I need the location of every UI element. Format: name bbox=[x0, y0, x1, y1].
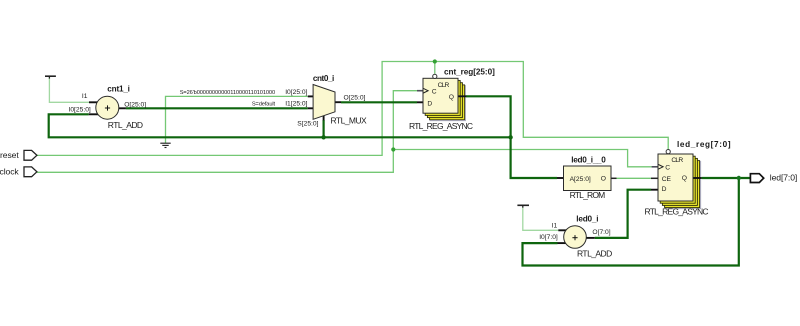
svg-text:I0[25:0]: I0[25:0] bbox=[68, 106, 90, 113]
svg-text:cnt1_i: cnt1_i bbox=[107, 85, 129, 94]
wire bus cnt_reg Q to rom A bbox=[466, 96, 557, 178]
svg-text:CLR: CLR bbox=[671, 157, 683, 164]
svg-text:cnt_reg[25:0]: cnt_reg[25:0] bbox=[444, 68, 495, 77]
svg-text:A[25:0]: A[25:0] bbox=[570, 176, 591, 183]
wire rom O to led_reg CE bbox=[617, 177, 652, 179]
power vcc1 bbox=[45, 76, 56, 78]
svg-text:Q: Q bbox=[682, 175, 687, 182]
svg-text:I1: I1 bbox=[552, 222, 558, 229]
svg-text:S=default: S=default bbox=[252, 101, 276, 107]
input port reset bbox=[0, 150, 37, 160]
wire vcc2 to led0_i I1 bbox=[523, 208, 559, 231]
wire clock branch to led_reg C bbox=[393, 150, 651, 167]
junction bus at cnt_reg Q column bbox=[508, 135, 512, 139]
wire bus cnt feedback to adder I0 bbox=[49, 114, 511, 137]
svg-text:led0_i__0: led0_i__0 bbox=[571, 155, 606, 164]
svg-text:I1: I1 bbox=[82, 93, 88, 100]
svg-text:S[25:0]: S[25:0] bbox=[297, 121, 318, 128]
junction bus at mux S bbox=[321, 135, 325, 139]
input port clock bbox=[0, 166, 37, 176]
svg-text:I0[25:0]: I0[25:0] bbox=[285, 89, 307, 96]
svg-text:clock: clock bbox=[0, 166, 19, 176]
svg-text:reset: reset bbox=[0, 150, 19, 160]
register led_reg RTL_REG_ASYNC bbox=[645, 140, 732, 217]
svg-text:I1[25:0]: I1[25:0] bbox=[285, 100, 307, 107]
svg-text:RTL_ADD: RTL_ADD bbox=[108, 120, 143, 130]
adder led0_i RTL_ADD bbox=[539, 215, 612, 259]
svg-text:O[25:0]: O[25:0] bbox=[124, 102, 146, 109]
wire vcc1 to cnt1_i I1 bbox=[49, 78, 89, 102]
svg-text:led_reg[7:0]: led_reg[7:0] bbox=[677, 140, 731, 149]
ground bbox=[160, 143, 170, 147]
rom led0_i__0 RTL_ROM bbox=[557, 155, 617, 200]
svg-text:C: C bbox=[432, 88, 437, 95]
junction clock branch bbox=[391, 147, 395, 151]
wire reset net bbox=[37, 62, 668, 156]
svg-text:O[7:0]: O[7:0] bbox=[592, 229, 610, 236]
svg-text:D: D bbox=[662, 186, 667, 193]
svg-text:I0[7:0]: I0[7:0] bbox=[539, 234, 558, 241]
wire bus led0_i O to led_reg D bbox=[595, 190, 651, 238]
junction bus at led Q bbox=[737, 176, 741, 180]
svg-text:Q: Q bbox=[449, 94, 454, 101]
wire bus mux O to cnt_reg D bbox=[341, 101, 417, 103]
svg-text:led[7:0]: led[7:0] bbox=[770, 173, 797, 183]
adder cnt1_i RTL_ADD bbox=[68, 85, 146, 130]
svg-text:cnt0_i: cnt0_i bbox=[313, 74, 334, 83]
svg-text:RTL_ROM: RTL_ROM bbox=[570, 190, 606, 200]
wire gnd to mux I0 bbox=[166, 96, 308, 143]
wire bus led_reg Q to led port bbox=[702, 177, 751, 179]
svg-text:O: O bbox=[601, 176, 606, 183]
wire bus led feedback to adder I0 bbox=[523, 178, 739, 266]
svg-text:RTL_REG_ASYNC: RTL_REG_ASYNC bbox=[409, 121, 473, 131]
svg-text:D: D bbox=[427, 101, 432, 108]
svg-text:S=26'b000000000001100001101010: S=26'b00000000000110000110101000 bbox=[180, 90, 275, 96]
register cnt_reg RTL_REG_ASYNC bbox=[409, 68, 495, 131]
svg-text:led0_i: led0_i bbox=[576, 215, 598, 224]
svg-text:C: C bbox=[665, 165, 670, 172]
power vcc2 bbox=[517, 205, 529, 207]
junction reset branch bbox=[433, 59, 437, 63]
wire bus adder cnt1 O to mux I1 bbox=[126, 107, 308, 109]
svg-text:RTL_MUX: RTL_MUX bbox=[331, 115, 368, 125]
svg-text:RTL_REG_ASYNC: RTL_REG_ASYNC bbox=[645, 206, 709, 216]
wire reset branch to cnt_reg CLR bbox=[434, 62, 436, 74]
mux cnt0_i RTL_MUX bbox=[285, 74, 367, 128]
svg-text:RTL_ADD: RTL_ADD bbox=[577, 249, 612, 259]
output port led[7:0] bbox=[750, 173, 797, 183]
wire bus mux S drop bbox=[323, 120, 325, 137]
svg-text:O[25:0]: O[25:0] bbox=[344, 95, 366, 102]
svg-text:CE: CE bbox=[662, 176, 672, 183]
svg-text:CLR: CLR bbox=[438, 82, 450, 89]
wire clock net bbox=[37, 91, 418, 173]
